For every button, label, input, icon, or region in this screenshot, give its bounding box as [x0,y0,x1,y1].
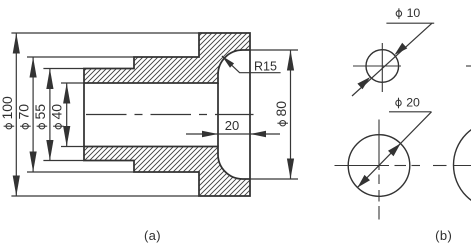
circle cut off at right edge [454,121,471,209]
circle phi20 [348,135,410,197]
centre line of part (a) [86,114,254,116]
hatched section, lower half [84,147,250,197]
svg-text:40: 40 [49,104,65,120]
svg-text:20: 20 [406,95,420,109]
label phi70 [16,104,32,129]
extension line phi70 bottom [27,171,134,173]
extension line phi100 bottom [11,195,199,197]
hatched section, upper half [84,33,250,83]
centre line dash, clipped circle of top row [466,65,471,67]
extension line phi100 top [11,32,199,34]
label phi10 [396,8,401,19]
extension line phi40 bottom [61,146,84,148]
svg-text:(a): (a) [144,228,161,243]
svg-text:20: 20 [225,118,239,133]
dimension line phi80 with arrows [290,50,292,179]
leader R15 [222,56,281,73]
centre lines phi20 [335,165,390,167]
dimension line phi70 with arrows [32,57,34,172]
centre lines phi10 [353,65,401,67]
dimension line phi100 with arrows [15,33,17,196]
dimension line phi20 (diagonal with inside arrows) [358,112,432,187]
extension line phi40 top [61,82,84,84]
recess bottom wall edge across bore [217,83,219,147]
label phi20 [396,98,401,109]
svg-text:80: 80 [273,101,289,117]
dimension line phi40 with arrows [66,83,68,147]
dimension line phi10 (diagonal with outside arrows) [352,23,432,96]
svg-text:10: 10 [407,6,421,20]
svg-text:55: 55 [32,104,48,120]
extension line phi55 top [43,68,84,70]
extension line phi55 bottom [43,160,84,162]
right face edge across recess [249,50,251,179]
svg-text:R15: R15 [254,60,277,74]
svg-text:100: 100 [0,96,15,120]
label phi55 [32,104,48,129]
label phi40 [49,104,65,129]
dimension 20 line with outside arrows [186,133,280,135]
label phi100 [0,96,15,129]
extension line phi80 top [250,49,298,51]
label phi80 [273,101,289,126]
left face edge across bore [83,83,85,147]
extension line phi80 bottom [250,178,298,180]
circle phi10 [366,50,399,83]
extension line phi70 top [27,56,134,58]
dimension line phi55 with arrows [49,69,51,161]
svg-text:(b): (b) [435,228,452,243]
svg-text:70: 70 [16,104,32,120]
